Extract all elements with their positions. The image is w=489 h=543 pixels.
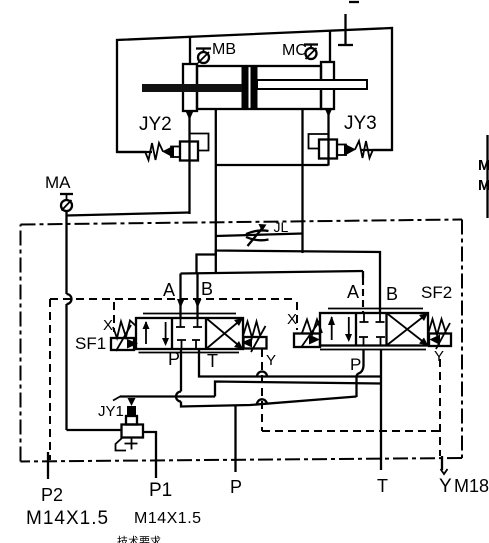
svg-text:X: X [287,311,297,328]
svg-text:JY3: JY3 [344,113,377,134]
svg-text:B: B [201,279,213,299]
svg-text:SF2: SF2 [421,283,452,302]
svg-text:Y: Y [439,476,452,497]
svg-text:B: B [386,284,398,304]
svg-text:MA: MA [478,157,489,174]
svg-text:M14X1.5: M14X1.5 [26,508,109,529]
svg-text:M14X1.5: M14X1.5 [134,510,202,527]
svg-text:T: T [207,351,218,371]
svg-text:P2: P2 [41,485,63,505]
svg-text:MA: MA [478,177,489,194]
svg-text:P: P [230,477,242,497]
svg-text:X: X [103,317,113,334]
svg-text:JY1: JY1 [98,403,124,420]
svg-text:T: T [377,476,388,496]
svg-text:A: A [347,282,359,302]
svg-text:P1: P1 [149,480,172,501]
svg-text:技术要求: 技术要求 [117,535,161,543]
svg-text:MB: MB [212,41,236,58]
svg-text:P: P [350,355,361,374]
svg-text:Y: Y [266,352,276,369]
svg-text:Y: Y [434,348,444,365]
svg-text:MC: MC [282,42,307,59]
svg-text:A: A [163,280,175,300]
svg-text:SF1: SF1 [75,334,106,353]
svg-text:JY2: JY2 [139,114,172,135]
svg-text:MA: MA [45,173,71,192]
svg-text:M18: M18 [454,476,489,496]
